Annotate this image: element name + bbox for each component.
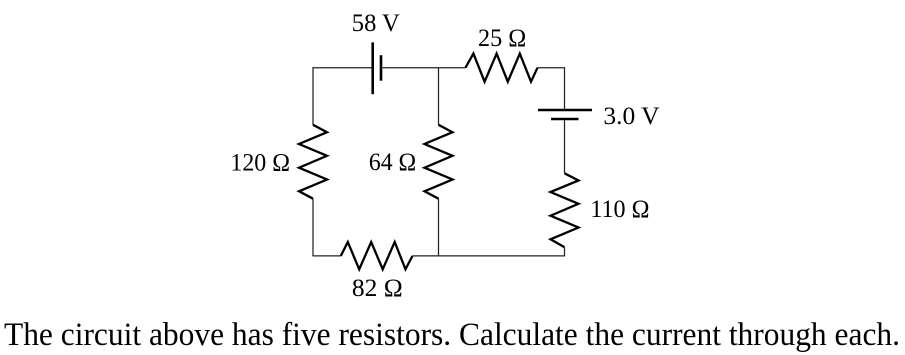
resistor 64 ohm bbox=[425, 125, 453, 199]
wire top-right bbox=[538, 67, 565, 69]
svg-text:The circuit above has five res: The circuit above has five resistors. Ca… bbox=[4, 317, 900, 353]
wire left branch upper bbox=[312, 67, 314, 125]
resistor 120 ohm bbox=[299, 125, 327, 199]
wire right branch upper bbox=[564, 67, 566, 110]
battery V1 58V short plate bbox=[380, 55, 383, 80]
svg-text:64 Ω: 64 Ω bbox=[369, 148, 416, 176]
svg-text:110 Ω: 110 Ω bbox=[590, 195, 649, 223]
wire top-middle bbox=[382, 67, 465, 69]
wire bottom-right bbox=[413, 255, 565, 257]
wire middle branch lower bbox=[438, 199, 440, 256]
svg-text:25 Ω: 25 Ω bbox=[478, 24, 526, 52]
battery V1 58V long plate bbox=[371, 42, 374, 94]
battery V2 3.0V short plate bbox=[551, 118, 579, 121]
svg-text:82 Ω: 82 Ω bbox=[352, 274, 403, 302]
svg-text:120 Ω: 120 Ω bbox=[230, 149, 290, 177]
wire middle branch upper bbox=[438, 68, 440, 125]
resistor 110 ohm bbox=[551, 173, 579, 247]
svg-text:58 V: 58 V bbox=[352, 9, 401, 37]
battery V2 3.0V long plate bbox=[538, 109, 592, 112]
wire top-left bbox=[313, 67, 372, 69]
resistor 82 ohm bbox=[341, 242, 413, 269]
svg-text:3.0 V: 3.0 V bbox=[603, 102, 660, 130]
wire bottom-left bbox=[313, 255, 341, 257]
wire right branch middle bbox=[564, 120, 566, 173]
wire left branch lower bbox=[312, 199, 314, 257]
resistor 25 ohm bbox=[466, 54, 538, 82]
wire right branch lower bbox=[564, 247, 566, 256]
